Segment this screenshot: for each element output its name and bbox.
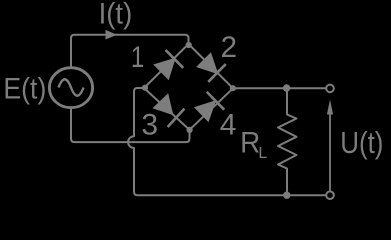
U(t) arrow line	[329, 112, 331, 190]
diode D1 cathode bar	[166, 50, 184, 68]
svg-text:R: R	[240, 127, 260, 160]
output terminal bottom (open circle)	[326, 191, 334, 199]
svg-text:I(t): I(t)	[99, 0, 133, 31]
U(t) arrowhead	[327, 100, 333, 115]
wire: bridge edge D1 (left node to top node)	[144, 44, 189, 88]
node: top of bridge	[186, 42, 192, 48]
junction node below resistor	[283, 192, 290, 199]
diode D4 triangle	[194, 100, 216, 122]
node: bottom of bridge	[187, 127, 193, 133]
wire: left node to bottom rail with hop over source wire, then to bottom terminal	[128, 88, 326, 195]
wire: source top up and right to top node	[71, 35, 189, 67]
resistor RL with leads	[278, 89, 297, 196]
svg-text:3: 3	[141, 109, 158, 142]
diode D4 cathode bar	[207, 92, 224, 110]
svg-text:U(t): U(t)	[340, 126, 383, 161]
wire: source bottom down and right to bottom node	[71, 109, 190, 142]
wire: right node to top output terminal	[233, 87, 326, 89]
diode D3 triangle	[152, 93, 173, 115]
svg-text:2: 2	[221, 31, 237, 64]
wire: bridge edge D4 (bottom node to right node)	[190, 88, 234, 130]
junction node above resistor	[283, 84, 290, 91]
svg-text:E(t): E(t)	[3, 72, 46, 106]
diode D2 triangle	[196, 52, 218, 74]
wire: bridge edge D3 (left node to bottom node)	[144, 88, 190, 130]
node: left of bridge	[142, 85, 148, 91]
node: right of bridge	[230, 85, 236, 91]
diode D1 triangle	[153, 58, 176, 81]
svg-text:4: 4	[220, 108, 237, 141]
wire: bridge edge D2 (top node to right node)	[189, 44, 234, 88]
diode D2 cathode bar	[208, 64, 226, 82]
svg-text:1: 1	[131, 39, 144, 73]
output terminal top (open circle)	[326, 85, 334, 93]
diode D3 cathode bar	[168, 109, 185, 127]
AC source E(t) circle	[49, 68, 92, 108]
sine wave inside source	[59, 79, 84, 96]
svg-text:L: L	[258, 145, 267, 162]
arrow for I(t) on top wire	[106, 30, 118, 40]
